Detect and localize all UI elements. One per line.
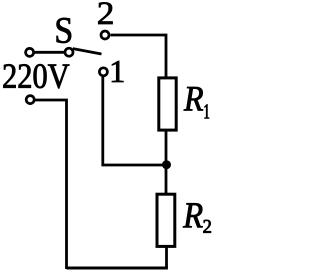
label S (switch designator) <box>57 18 71 43</box>
label 2 (contact 2 pin number) <box>98 2 112 24</box>
wire: left rail up to source bottom terminal <box>35 100 67 269</box>
label R2 <box>183 203 203 227</box>
junction node (tap between R1 and R2) <box>162 160 171 169</box>
wire: contact 1 down and right to junction <box>103 77 166 165</box>
label R1 <box>184 87 203 111</box>
wire: R2 bottom to bottom rail <box>165 246 168 268</box>
label 1 (contact 1 pin number) <box>112 61 123 82</box>
wire: R1 bottom to junction to R2 top <box>165 130 168 195</box>
wire: source top terminal to switch pivot <box>33 51 66 54</box>
switch contact 2 <box>101 31 109 39</box>
source terminal top (220V) <box>26 48 34 56</box>
label 220V (source value) <box>3 64 69 88</box>
wire: bottom rail <box>67 267 168 270</box>
switch S pivot <box>65 48 73 56</box>
switch contact 1 <box>99 68 107 76</box>
resistor R1 <box>159 78 176 130</box>
resistor R2 <box>157 194 175 246</box>
switch S blade <box>73 49 102 54</box>
source terminal bottom (220V) <box>26 96 34 104</box>
wire: contact 2 to top of R1 <box>111 35 167 79</box>
